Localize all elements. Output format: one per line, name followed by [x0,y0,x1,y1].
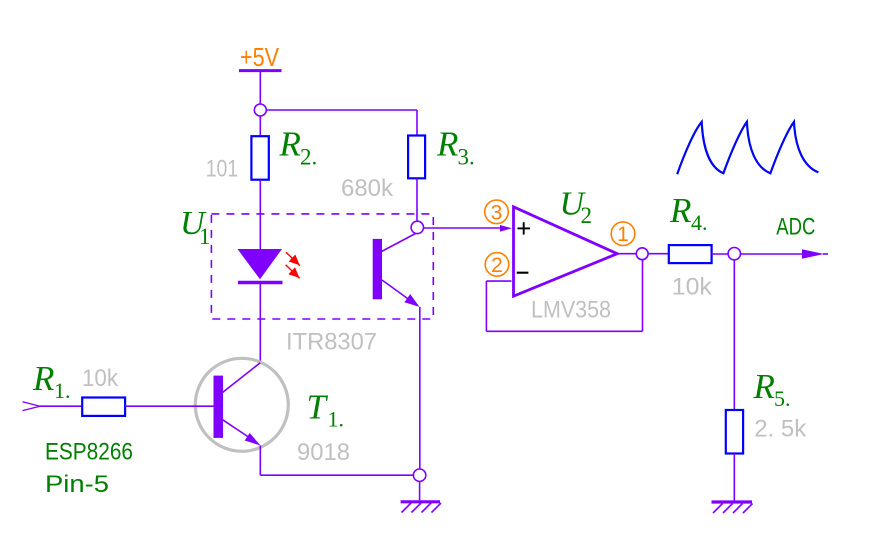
wire node A to R3 branch [266,110,417,136]
svg-text:101: 101 [206,156,239,183]
wire port to R1 [40,405,82,407]
resistor R3 [408,136,425,179]
svg-text:+5V: +5V [240,42,280,72]
label U2 [560,186,593,229]
wire LED cathode to T1 collector [259,284,261,364]
wire R2 to LED anode [259,180,261,249]
svg-text:R: R [436,124,458,163]
optocoupler U1 dashed box [211,214,433,319]
svg-text:ESP8266: ESP8266 [45,439,133,466]
wire op-amp output to node [617,253,636,255]
node C junction [413,469,425,481]
label U1 [180,205,211,249]
wire node D to R5 [733,260,735,410]
svg-text:1: 1 [199,224,211,249]
resistor R5 [726,410,743,454]
svg-text:3.: 3. [458,145,475,170]
op-amp U2 [514,207,618,296]
svg-text:1.: 1. [54,378,71,403]
svg-text:R: R [669,191,691,230]
svg-text:5.: 5. [774,386,791,411]
wire +5V to node A [259,72,261,104]
wire node A to R2 [259,116,261,136]
light emission arrows [286,252,300,278]
svg-text:ADC: ADC [776,213,815,240]
ground 2 [712,502,753,513]
svg-text:Pin-5: Pin-5 [45,471,109,498]
svg-text:1: 1 [617,223,629,246]
wire R5 to ground [733,454,735,501]
node B junction [411,221,423,233]
svg-text:2.: 2. [300,145,317,170]
svg-text:2: 2 [581,203,593,228]
svg-text:ITR8307: ITR8307 [286,329,377,356]
wire node B to op-amp input [424,227,504,229]
label R1 [32,359,71,403]
op-amp input arrow [500,225,512,232]
wire T1 emitter to node C [260,446,413,476]
optocoupler phototransistor [373,234,420,307]
svg-text:680k: 680k [341,175,394,202]
input port arrow [23,402,41,411]
svg-text:LMV358: LMV358 [531,297,611,324]
power symbol +5V [239,42,282,72]
svg-text:2: 2 [491,254,503,277]
optocoupler LED [238,249,283,283]
wire R3 to node B [416,178,418,221]
label R3 [436,124,475,169]
svg-text:T: T [307,388,329,427]
svg-text:4.: 4. [691,210,708,235]
output waveform [677,122,818,174]
pin 3 marker [485,200,509,224]
feedback wire [486,260,642,332]
pin 2 marker [485,253,509,277]
svg-text:9018: 9018 [297,439,350,466]
label R4 [669,191,708,235]
wire node D to ADC [741,249,829,258]
resistor R2 [251,136,268,180]
output node junction [636,248,648,260]
transistor T1 [195,358,288,451]
svg-text:2. 5k: 2. 5k [754,416,807,443]
ground 1 [401,502,441,513]
svg-text:3: 3 [491,201,503,224]
resistor R4 [669,245,712,263]
label T1 [307,388,345,432]
wire phototransistor emitter to node C [419,307,421,469]
wire output node to R4 [648,253,669,255]
svg-text:10k: 10k [82,365,119,392]
wire R4 to node D [712,253,729,255]
label R2 [279,124,318,169]
svg-text:R: R [279,124,301,163]
svg-text:10k: 10k [672,273,713,300]
node A junction [254,104,266,116]
pin 1 marker [611,222,635,246]
wire R1 to T1 base [125,405,213,407]
net label ESP8266 Pin-5 [45,439,133,499]
label R5 [753,367,791,411]
wire node C to ground [419,481,421,500]
svg-text:R: R [32,359,54,398]
svg-text:1.: 1. [328,407,345,432]
svg-text:R: R [753,367,775,406]
resistor R1 [82,398,125,416]
node D junction [728,248,740,260]
